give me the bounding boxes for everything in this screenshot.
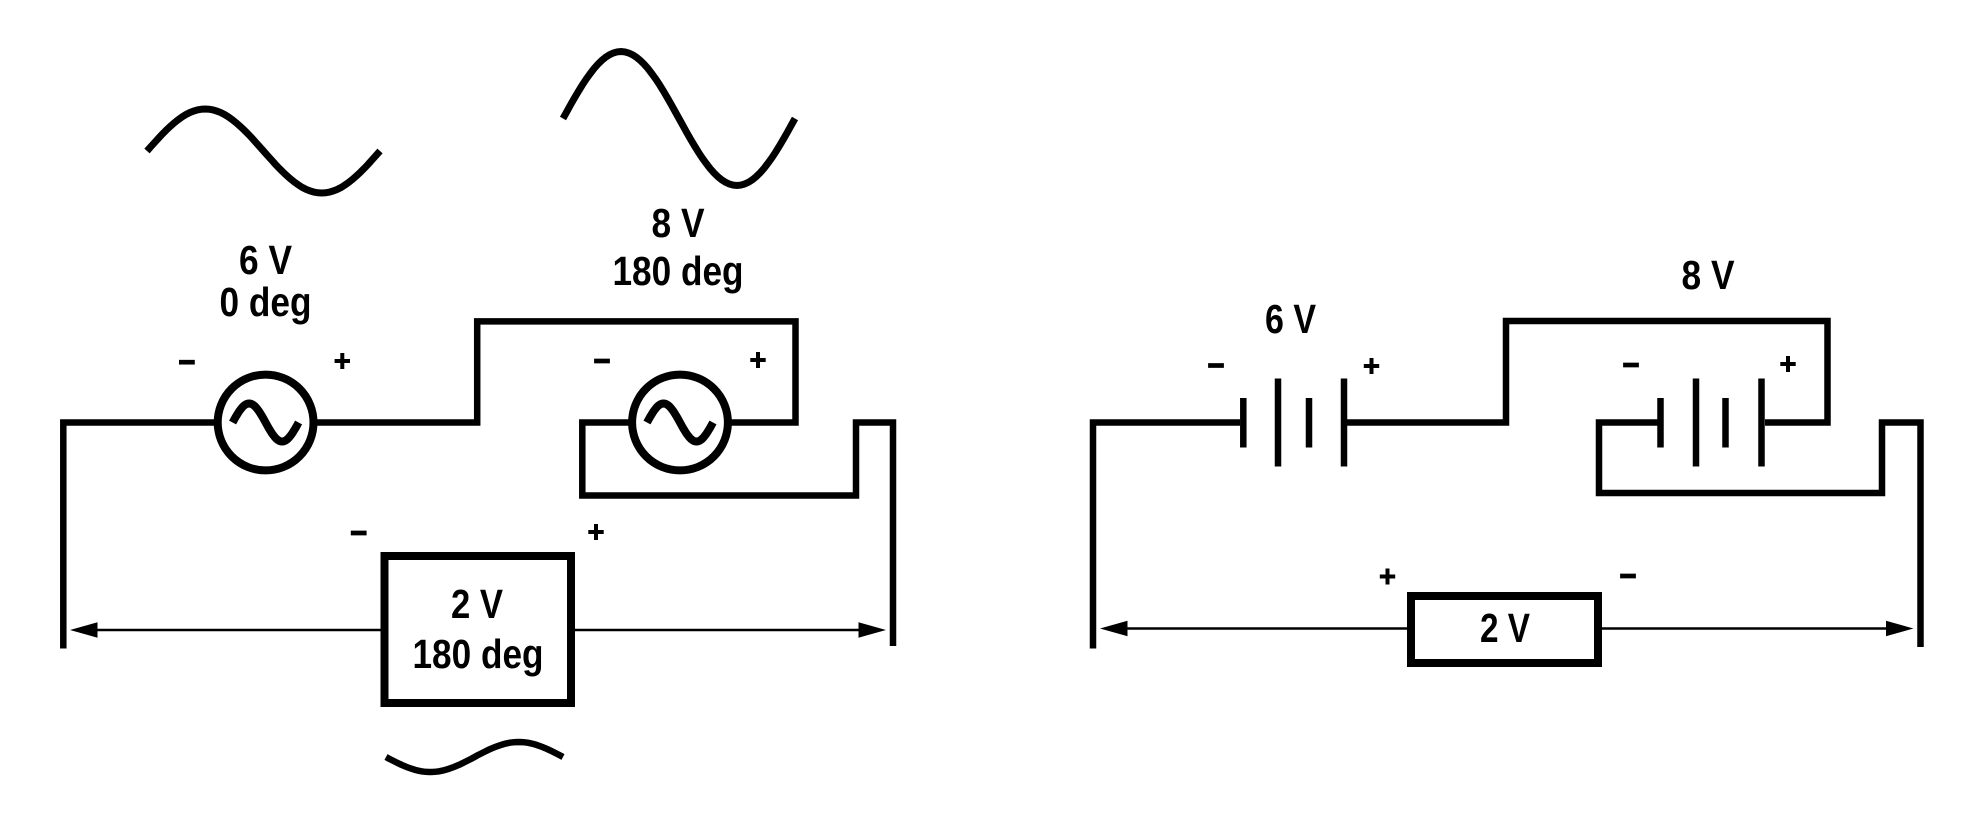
- battery B2 plates: [1657, 398, 1664, 448]
- svg-text:8 V: 8 V: [1682, 252, 1736, 298]
- dimension arrow left segment right circuit: [1126, 627, 1411, 630]
- label battery B1 6 V: [1265, 296, 1317, 342]
- wire from V2 minus down and right to outer right branch: [582, 423, 893, 647]
- AC source V1 sine glyph: [233, 404, 299, 442]
- svg-text:180 deg: 180 deg: [613, 248, 744, 294]
- arrowhead left right circuit: [1100, 621, 1128, 636]
- polarity plus of B2: [1780, 356, 1795, 372]
- svg-text:6 V: 6 V: [1265, 296, 1317, 342]
- label V2 value 8 V: [652, 200, 706, 246]
- AC source V1 circle: [218, 375, 314, 471]
- AC source V2 sine glyph: [647, 404, 713, 442]
- polarity plus of B1: [1364, 358, 1379, 374]
- wire left branch of left circuit: [63, 423, 218, 649]
- svg-text:2 V: 2 V: [451, 581, 504, 627]
- arrowhead left: [70, 622, 98, 637]
- polarity plus of result box right: [588, 524, 603, 540]
- wire left branch of right circuit: [1093, 423, 1240, 649]
- dimension arrow right segment right circuit: [1598, 627, 1886, 630]
- waveform for source V1 (6 V sine): [147, 109, 380, 193]
- wire from B2 minus down and right to outer right branch: [1599, 423, 1921, 648]
- result waveform squiggle (inverted sine): [386, 742, 563, 772]
- waveform for source V2 (8 V sine): [563, 52, 795, 186]
- label result 180 deg: [413, 631, 544, 677]
- svg-text:8 V: 8 V: [652, 200, 706, 246]
- arrowhead right: [859, 622, 887, 637]
- result box 2 V right circuit: [1411, 596, 1598, 663]
- label result 2 V right circuit: [1480, 605, 1531, 651]
- arrowhead right right circuit: [1886, 621, 1914, 636]
- label battery B2 8 V: [1682, 252, 1736, 298]
- label V1 value 6 V: [239, 237, 293, 283]
- label result 2 V: [451, 581, 504, 627]
- wire from V1 plus over top loop to V2 plus: [314, 321, 796, 422]
- svg-text:6 V: 6 V: [239, 237, 293, 283]
- dimension arrow right segment: [575, 629, 859, 632]
- wire from B1 plus over top loop to B2 plus: [1347, 321, 1828, 423]
- AC source V2 circle: [632, 375, 728, 471]
- polarity minus of B1: [1208, 363, 1224, 368]
- polarity plus of result box right circuit: [1380, 569, 1395, 585]
- polarity minus of V1: [179, 360, 195, 365]
- label V1 phase 0 deg: [220, 279, 312, 325]
- dimension arrow left segment: [96, 629, 381, 632]
- polarity minus of V2: [594, 359, 610, 364]
- polarity minus of B2: [1623, 363, 1639, 368]
- polarity plus of V1: [335, 353, 350, 369]
- polarity plus of V2: [750, 352, 765, 368]
- svg-text:0 deg: 0 deg: [220, 279, 312, 325]
- result box 2 V 180 deg: [385, 556, 572, 703]
- polarity minus of result box left: [351, 531, 367, 536]
- svg-text:180 deg: 180 deg: [413, 631, 544, 677]
- svg-text:2 V: 2 V: [1480, 605, 1531, 651]
- label V2 phase 180 deg: [613, 248, 744, 294]
- polarity minus of result box right circuit: [1620, 574, 1636, 579]
- battery B1 plates: [1240, 398, 1247, 448]
